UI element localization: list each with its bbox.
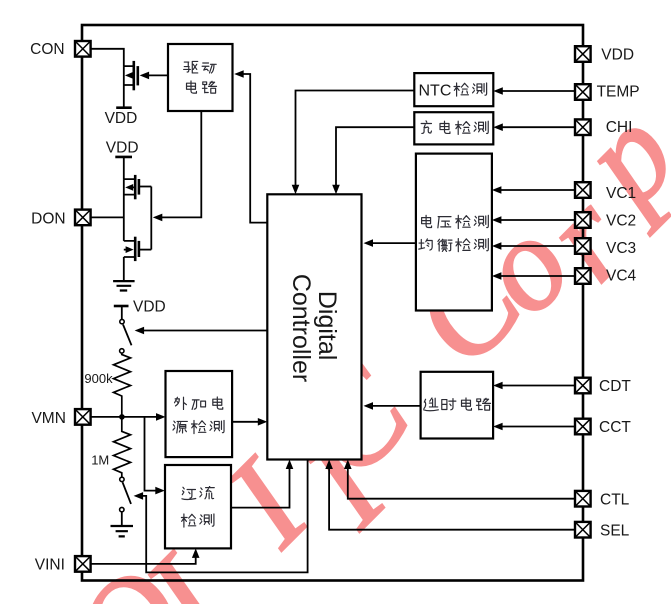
svg-text:VDD: VDD (105, 110, 138, 127)
block U2 drive circuit 驱动电路 (168, 44, 233, 111)
pin CTL (575, 491, 630, 508)
watermark letter O (43, 539, 216, 604)
resistor R1 900k (114, 354, 131, 417)
wire VINI pin to U8 (91, 548, 200, 564)
wire VC4 pin to U5 (492, 272, 574, 280)
svg-text:CDT: CDT (599, 378, 631, 395)
wire U5 output to U1 (364, 239, 416, 247)
wire U7 output to U1 (232, 418, 267, 426)
value label 1M (91, 453, 109, 468)
block U5 voltage and balance detect 电压检测均衡检测 (416, 154, 492, 311)
svg-text:NTC: NTC (419, 83, 452, 100)
chip boundary border (82, 25, 583, 581)
pin CON (30, 41, 90, 58)
pin SEL (575, 522, 630, 540)
resistor R2 1M (114, 417, 131, 477)
svg-text:VMN: VMN (31, 410, 65, 427)
node junction VMN divider (119, 414, 125, 420)
power VDD rail symbol below Q1 (105, 108, 138, 127)
pin VC4 (575, 267, 637, 284)
pin CCT (575, 419, 631, 437)
ground below SW2 (111, 526, 134, 536)
transistor Q2 PMOS (124, 175, 152, 241)
pin CDT (575, 378, 631, 396)
watermark letter r (514, 165, 656, 307)
power VDD rail symbol above Q2 (106, 139, 139, 179)
value label 900k (84, 371, 113, 386)
block U8 overcurrent detect 过流检测 (165, 465, 231, 548)
wire U2 bottom to Q2 Q3 gates (153, 111, 202, 221)
svg-text:CTL: CTL (600, 491, 630, 508)
svg-text:VDD: VDD (601, 47, 634, 64)
watermark letter C (382, 225, 550, 393)
ground below Q3 (113, 281, 135, 290)
svg-text:VC2: VC2 (606, 212, 636, 229)
svg-text:VC3: VC3 (606, 240, 636, 257)
svg-text:VDD: VDD (133, 298, 166, 315)
watermark letter C (270, 336, 438, 504)
wire CCT pin to U6 (493, 423, 574, 431)
watermark letter I (115, 527, 256, 604)
pin VC1 (575, 182, 636, 202)
svg-text:900k: 900k (84, 371, 113, 386)
wire CON pin to Q1 drain (91, 49, 124, 66)
pin VMN (31, 409, 90, 427)
wire CDT pin to U6 (493, 382, 574, 390)
wire U1 to SW1 control (135, 327, 268, 335)
watermark letter p (546, 79, 671, 236)
wire U2 output to Q1 gate (140, 72, 168, 80)
wire VMN pin to U7 input (91, 413, 166, 421)
pin VC3 (575, 238, 636, 257)
wire VC2 pin to U5 (492, 216, 574, 224)
pin TEMP (575, 83, 640, 100)
pin VC2 (575, 212, 636, 229)
wire VC1 pin to U5 (492, 186, 574, 194)
wire DON pin to Q2 Q3 drains (91, 216, 124, 218)
wire TEMP pin to U3 (493, 87, 574, 95)
power VDD tap for divider switch (114, 298, 166, 319)
wire VMN branch to U8 input (145, 417, 165, 495)
watermark letter I (275, 412, 416, 553)
svg-text:TEMP: TEMP (597, 83, 640, 100)
pin CHI (575, 119, 632, 136)
wire U4 output to U1 top (332, 127, 414, 194)
svg-text:VDD: VDD (106, 139, 139, 156)
svg-text:VINI: VINI (35, 557, 65, 574)
wire VC3 pin to U5 (492, 242, 574, 250)
block U7 external supply detect 外加电源检测 (166, 371, 233, 457)
block U4 charge detect 充电检测 (414, 112, 493, 144)
wire U1 to U2 input (234, 70, 267, 222)
wire SEL pin to U1 (325, 460, 574, 530)
pin DON (31, 210, 90, 228)
transistor Q1 PMOS (124, 61, 138, 108)
pin VDD (575, 46, 634, 63)
wire CTL pin to U1 (344, 460, 574, 499)
svg-text:DON: DON (31, 211, 65, 228)
svg-text:1M: 1M (91, 453, 109, 468)
svg-text:CON: CON (30, 41, 64, 58)
svg-text:VC4: VC4 (606, 267, 637, 284)
svg-text:VC1: VC1 (606, 185, 636, 202)
switch SW1 (120, 319, 132, 353)
svg-text:CHI: CHI (606, 119, 633, 136)
wire U1 to SW2 control (134, 460, 308, 573)
svg-text:Digital: Digital (313, 291, 341, 360)
wire U8 output to U1 (231, 460, 293, 508)
transistor Q3 NMOS (124, 187, 152, 282)
watermark letter I (197, 431, 338, 572)
pin VINI (35, 556, 91, 573)
switch SW2 (120, 477, 131, 526)
block U6 delay circuit 延时电路 (421, 372, 494, 439)
watermark letter o (446, 190, 598, 342)
block U3 NTC detect NTC检测 (414, 73, 493, 106)
svg-text:Controller: Controller (287, 274, 315, 382)
block U1 Digital Controller (267, 194, 361, 459)
wire CHI pin to U4 (493, 123, 574, 131)
svg-text:CCT: CCT (599, 419, 631, 436)
wire U3 output to U1 top (292, 91, 415, 195)
svg-text:SEL: SEL (600, 522, 630, 539)
wire U6 output to U1 (364, 402, 421, 410)
